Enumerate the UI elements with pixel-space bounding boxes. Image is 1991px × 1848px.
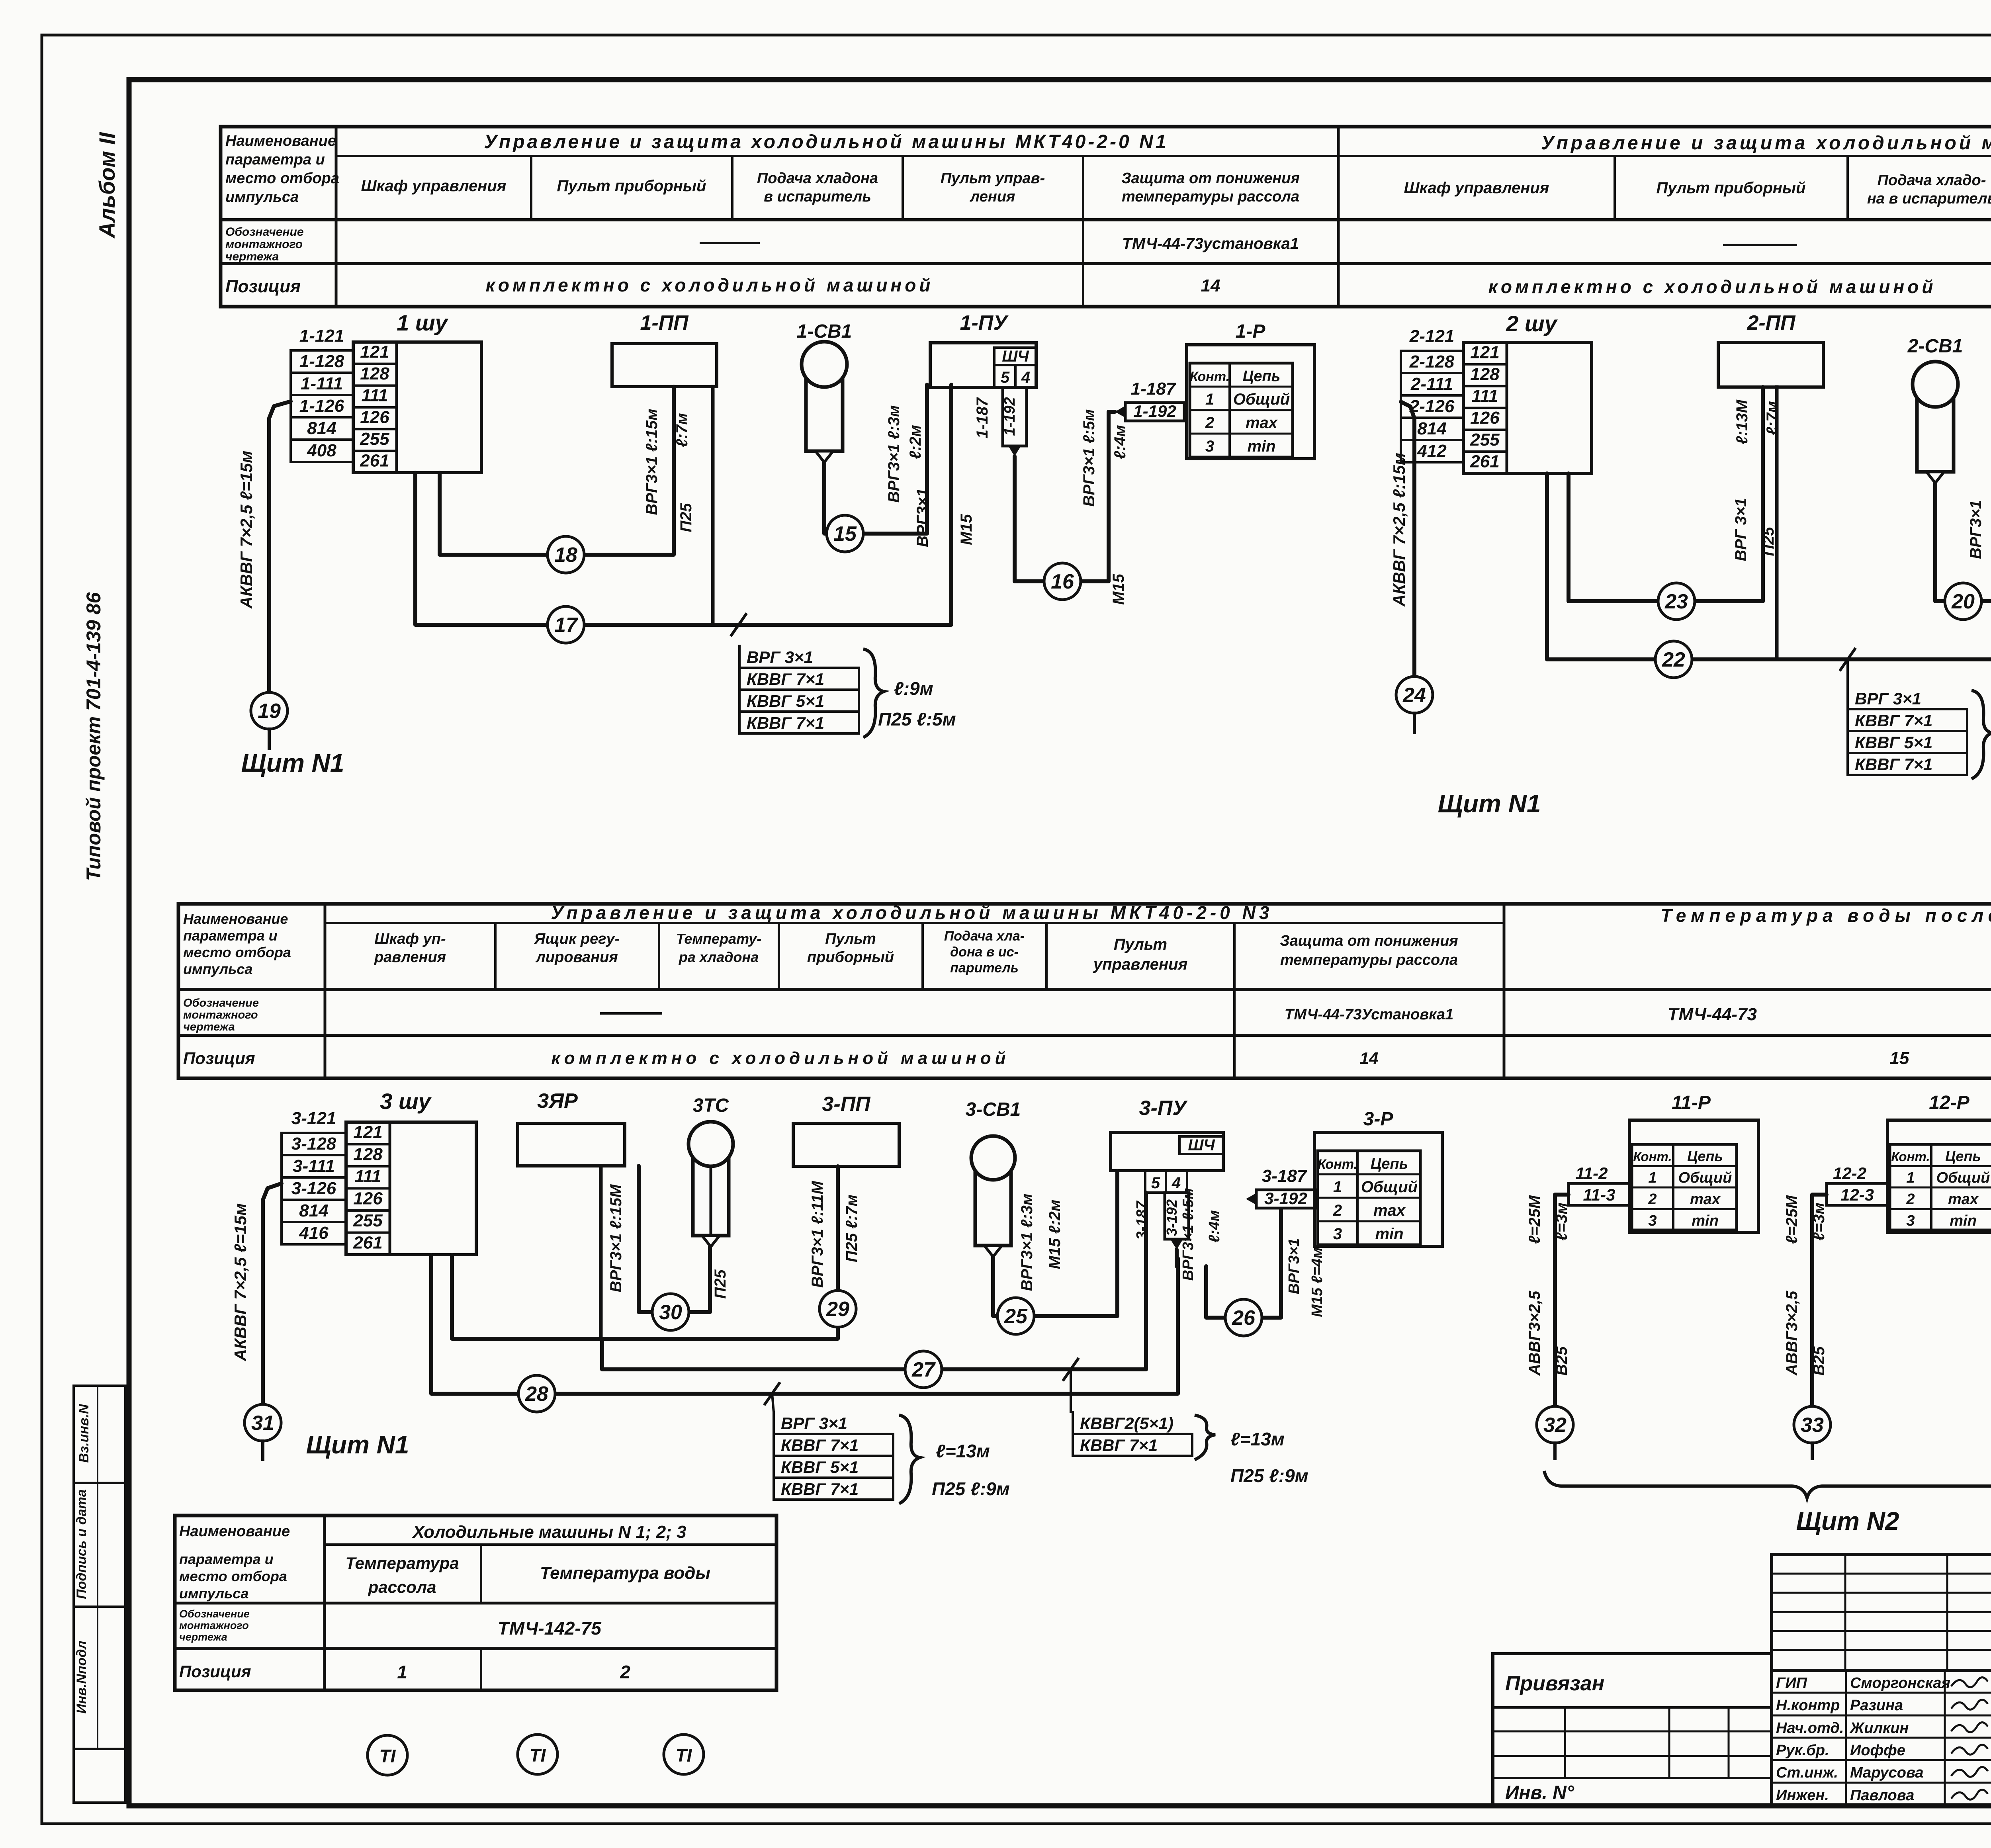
svg-text:Наименование: Наименование — [183, 911, 288, 927]
wire to panel circle19 — [269, 401, 291, 692]
svg-text:416: 416 — [299, 1223, 329, 1243]
svg-text:412: 412 — [1417, 441, 1447, 461]
svg-text:Павлова: Павлова — [1850, 1787, 1914, 1804]
svg-text:Температура воды: Температура воды — [540, 1563, 710, 1583]
svg-text:max: max — [1948, 1191, 1979, 1208]
svg-text:Марусова: Марусова — [1850, 1764, 1924, 1781]
wire number circle 31 — [244, 1404, 281, 1441]
svg-text:ВРГ3×1 ℓ:5м: ВРГ3×1 ℓ:5м — [1180, 1188, 1197, 1281]
svg-text:17: 17 — [554, 614, 578, 637]
svg-text:Нач.отд.: Нач.отд. — [1776, 1720, 1844, 1737]
svg-text:24: 24 — [1402, 684, 1426, 707]
wire 17 t-branch to 1-PP — [711, 387, 715, 625]
svg-text:2-126: 2-126 — [1409, 397, 1455, 416]
svg-text:min: min — [1950, 1212, 1977, 1229]
svg-text:ВРГ3×1 ℓ:3м: ВРГ3×1 ℓ:3м — [885, 405, 903, 503]
svg-text:Типовой проект 701-4-139 86: Типовой проект 701-4-139 86 — [82, 592, 105, 881]
wire number circle 32 — [1537, 1406, 1573, 1443]
svg-text:Позиция: Позиция — [179, 1662, 251, 1681]
svg-text:М15: М15 — [1110, 573, 1127, 605]
svg-text:Ст.инж.: Ст.инж. — [1776, 1764, 1838, 1781]
svg-text:Подача хладо-: Подача хладо- — [1878, 172, 1986, 189]
svg-text:П25 ℓ:9м: П25 ℓ:9м — [1230, 1465, 1308, 1486]
svg-text:1-СВ1: 1-СВ1 — [797, 321, 852, 342]
svg-text:Пульт: Пульт — [1114, 936, 1167, 953]
svg-text:26: 26 — [1232, 1306, 1256, 1330]
svg-text:4: 4 — [1172, 1174, 1181, 1192]
block 2ШУ — [1463, 342, 1592, 473]
svg-text:255: 255 — [360, 429, 389, 449]
svg-text:261: 261 — [360, 451, 389, 471]
svg-text:ВРГ3×1 ℓ:11М: ВРГ3×1 ℓ:11М — [809, 1180, 826, 1288]
svg-text:1-192: 1-192 — [1001, 397, 1018, 436]
title block revision grid — [1772, 1555, 1991, 1670]
svg-text:2: 2 — [1648, 1191, 1657, 1208]
svg-text:комплектно с холодильной ма: комплектно с холодильной машиной — [486, 275, 934, 295]
svg-text:Цепь: Цепь — [1371, 1156, 1408, 1172]
svg-text:место отбора: место отбора — [225, 170, 339, 187]
svg-text:ВРГ3×1 ℓ:15м: ВРГ3×1 ℓ:15м — [643, 409, 661, 515]
svg-text:КВВГ 7×1: КВВГ 7×1 — [1080, 1436, 1158, 1455]
svg-text:КВВГ 5×1: КВВГ 5×1 — [747, 692, 824, 710]
wire 20 path — [1935, 400, 1991, 601]
svg-text:2-ПП: 2-ПП — [1747, 311, 1796, 334]
svg-text:Общий: Общий — [1361, 1178, 1418, 1196]
title block roles grid — [1772, 1670, 1991, 1805]
svg-text:Н.контр: Н.контр — [1776, 1697, 1840, 1714]
svg-text:1-ПП: 1-ПП — [640, 311, 689, 334]
svg-text:П25 ℓ:9м: П25 ℓ:9м — [932, 1478, 1010, 1499]
svg-text:814: 814 — [1417, 419, 1446, 438]
svg-text:комплектно с холодильной ма: комплектно с холодильной машиной — [551, 1048, 1009, 1068]
svg-text:Сморгонская: Сморгонская — [1850, 1675, 1950, 1692]
middle table designation row — [601, 1012, 661, 1015]
wire 16 path — [1015, 412, 1115, 581]
svg-text:261: 261 — [1470, 452, 1499, 471]
wire number circle 29 — [819, 1291, 856, 1327]
svg-text:min: min — [1375, 1225, 1403, 1243]
svg-text:ℓ:7м: ℓ:7м — [673, 413, 691, 447]
svg-text:Обозначение: Обозначение — [179, 1608, 250, 1620]
svg-text:31: 31 — [251, 1412, 274, 1435]
svg-text:Шкаф управления: Шкаф управления — [1404, 179, 1549, 197]
svg-text:Защита от понижения: Защита от понижения — [1121, 170, 1300, 187]
svg-text:3-187: 3-187 — [1134, 1201, 1150, 1240]
svg-text:Температура воды после гра: Температура воды после градирни — [1660, 905, 1991, 926]
svg-text:12-2: 12-2 — [1833, 1164, 1866, 1183]
svg-text:ГИП: ГИП — [1776, 1675, 1807, 1692]
svg-text:max: max — [1246, 414, 1278, 432]
svg-text:Разина: Разина — [1850, 1697, 1903, 1714]
svg-text:max: max — [1373, 1202, 1406, 1219]
wire number circle 19 — [251, 692, 288, 729]
svg-text:лирования: лирования — [535, 949, 618, 966]
wire 30 path — [639, 1166, 710, 1312]
svg-text:1-192: 1-192 — [1133, 402, 1176, 420]
svg-text:1-111: 1-111 — [301, 374, 343, 393]
svg-text:ВРГ 3×1: ВРГ 3×1 — [1855, 689, 1921, 708]
svg-text:чертежа: чертежа — [225, 250, 279, 263]
svg-text:Общий: Общий — [1936, 1169, 1990, 1186]
wire number circle 33 — [1794, 1406, 1831, 1443]
svg-text:33: 33 — [1801, 1414, 1824, 1437]
wire number circle 23 — [1658, 583, 1695, 620]
svg-text:1: 1 — [1648, 1169, 1657, 1186]
svg-text:ℓ=25М: ℓ=25М — [1783, 1195, 1801, 1244]
svg-text:монтажного: монтажного — [179, 1619, 249, 1631]
cable specification table — [1846, 687, 1849, 775]
svg-text:Шкаф уп-: Шкаф уп- — [374, 931, 446, 947]
svg-text:14: 14 — [1201, 276, 1220, 295]
svg-text:3-192: 3-192 — [1164, 1199, 1180, 1236]
svg-text:П25: П25 — [1760, 527, 1777, 556]
svg-text:128: 128 — [360, 364, 389, 383]
svg-text:АКВВГ 7×2,5 ℓ:15м: АКВВГ 7×2,5 ℓ:15м — [1390, 453, 1408, 607]
svg-text:чертежа: чертежа — [183, 1021, 235, 1033]
svg-text:рассола: рассола — [368, 1578, 436, 1596]
svg-text:Щит N1: Щит N1 — [1438, 789, 1541, 818]
svg-text:ВРГ3×1 ℓ:3м: ВРГ3×1 ℓ:3м — [1018, 1194, 1036, 1291]
svg-text:Управление и защита холодильно: Управление и защита холодильной машины М… — [1541, 133, 1991, 154]
svg-text:3: 3 — [1333, 1225, 1342, 1243]
branch tick — [765, 1383, 779, 1404]
wire number circle 20 — [1945, 583, 1981, 620]
TI instrument circle 3 — [664, 1735, 704, 1774]
svg-text:Щит N1: Щит N1 — [306, 1430, 409, 1459]
svg-text:паритель: паритель — [950, 960, 1019, 976]
block 3-PP — [793, 1123, 899, 1166]
svg-text:3-187: 3-187 — [1262, 1166, 1308, 1186]
svg-text:12-Р: 12-Р — [1929, 1092, 1969, 1113]
svg-text:29: 29 — [826, 1298, 849, 1321]
wire number circle 17 — [548, 606, 584, 643]
svg-text:3: 3 — [1906, 1212, 1915, 1229]
svg-text:1 шу: 1 шу — [397, 310, 448, 335]
svg-text:121: 121 — [360, 342, 389, 362]
title block left part — [1493, 1654, 1772, 1805]
svg-text:1: 1 — [1906, 1169, 1915, 1186]
svg-text:3-128: 3-128 — [291, 1134, 336, 1154]
svg-text:1: 1 — [1205, 391, 1214, 408]
wire number circle 30 — [652, 1294, 689, 1330]
svg-text:ℓ=13м: ℓ=13м — [1230, 1429, 1285, 1449]
svg-text:ℓ:4м: ℓ:4м — [1111, 425, 1129, 459]
wire pp2 second drop — [1775, 387, 1779, 659]
svg-text:2: 2 — [620, 1662, 630, 1682]
svg-text:ВРГ3×1: ВРГ3×1 — [1286, 1238, 1303, 1295]
svg-text:Конт.: Конт. — [1633, 1149, 1672, 1164]
svg-text:Управление и защита холодильно: Управление и защита холодильной машины М… — [551, 902, 1273, 923]
block 1-PU — [930, 343, 1036, 387]
svg-text:Обозначение: Обозначение — [183, 997, 259, 1009]
svg-text:126: 126 — [360, 407, 389, 427]
svg-text:27: 27 — [911, 1358, 936, 1381]
svg-text:5: 5 — [1001, 369, 1010, 386]
svg-text:255: 255 — [1470, 430, 1500, 450]
svg-text:Общий: Общий — [1678, 1169, 1732, 1186]
svg-text:КВВГ 5×1: КВВГ 5×1 — [781, 1458, 859, 1476]
svg-text:ра хладона: ра хладона — [679, 949, 759, 965]
svg-text:3: 3 — [1205, 438, 1214, 455]
svg-text:Наименование: Наименование — [225, 133, 336, 149]
svg-text:22: 22 — [1662, 648, 1685, 671]
svg-text:ТМЧ-44-73: ТМЧ-44-73 — [1668, 1005, 1757, 1024]
svg-text:П25 ℓ:5м: П25 ℓ:5м — [878, 709, 956, 729]
wire 18 path — [440, 387, 674, 555]
svg-text:814: 814 — [299, 1201, 328, 1220]
svg-text:3-СВ1: 3-СВ1 — [966, 1099, 1021, 1120]
svg-text:3-111: 3-111 — [293, 1156, 335, 1176]
svg-text:3-121: 3-121 — [291, 1109, 336, 1128]
svg-text:ℓ=3м: ℓ=3м — [1810, 1203, 1828, 1241]
svg-text:2-121: 2-121 — [1409, 327, 1455, 346]
top table machine2 designation row — [1724, 244, 1796, 246]
svg-text:параметра и: параметра и — [183, 927, 278, 944]
block 3ШУ — [346, 1122, 476, 1255]
svg-text:3-192: 3-192 — [1264, 1189, 1307, 1208]
wire number circle 27 — [905, 1351, 942, 1388]
svg-text:температуры рассола: температуры рассола — [1280, 952, 1458, 968]
svg-text:Подача хладона: Подача хладона — [757, 170, 878, 187]
svg-text:ВРГ 3×1: ВРГ 3×1 — [1732, 498, 1750, 561]
wire number circle 28 — [518, 1375, 555, 1412]
svg-text:Общий: Общий — [1233, 391, 1290, 408]
svg-text:814: 814 — [307, 418, 336, 438]
svg-text:4: 4 — [1021, 369, 1030, 386]
svg-text:28: 28 — [525, 1383, 548, 1406]
wire number circle 18 — [548, 536, 584, 573]
svg-text:ℓ=25М: ℓ=25М — [1526, 1195, 1543, 1244]
svg-text:2: 2 — [1333, 1202, 1342, 1219]
wire 26 path — [1175, 1250, 1179, 1266]
svg-text:КВВГ 7×1: КВВГ 7×1 — [1855, 711, 1932, 730]
svg-text:126: 126 — [353, 1189, 383, 1208]
svg-text:управления: управления — [1093, 956, 1187, 973]
svg-text:ℓ:2м: ℓ:2м — [907, 425, 924, 459]
svg-text:25: 25 — [1004, 1305, 1028, 1328]
svg-text:Наименование: Наименование — [179, 1523, 290, 1540]
svg-text:111: 111 — [355, 1167, 381, 1186]
svg-text:15: 15 — [833, 522, 857, 546]
svg-text:АКВВГ 7×2,5 ℓ=15м: АКВВГ 7×2,5 ℓ=15м — [231, 1203, 250, 1361]
svg-text:19: 19 — [258, 700, 281, 723]
wire to panel circle31 — [263, 1183, 282, 1404]
svg-text:ВРГ3×1 ℓ:15М: ВРГ3×1 ℓ:15М — [607, 1184, 625, 1293]
wire 25 path — [993, 1171, 1117, 1316]
svg-text:АВВГ3×2,5: АВВГ3×2,5 — [1783, 1291, 1801, 1376]
branch tick — [1064, 1359, 1078, 1380]
svg-text:ления: ления — [970, 188, 1015, 205]
svg-text:Обозначение: Обозначение — [225, 225, 304, 239]
svg-text:1: 1 — [397, 1662, 407, 1682]
svg-text:КВВГ 5×1: КВВГ 5×1 — [1855, 733, 1932, 752]
cable specification table — [773, 1412, 775, 1500]
wire shu-pp horizontal — [452, 1166, 838, 1339]
wire 32 path — [1555, 1195, 1569, 1406]
wire to panel circle24 — [1401, 402, 1414, 677]
svg-text:КВВГ 7×1: КВВГ 7×1 — [781, 1480, 859, 1498]
svg-text:ℓ:13М: ℓ:13М — [1733, 399, 1751, 444]
svg-text:ВРГ 3×1: ВРГ 3×1 — [747, 648, 813, 667]
svg-text:Управление и защита холодильно: Управление и защита холодильной машины М… — [484, 131, 1169, 153]
svg-text:Температу-: Температу- — [676, 931, 761, 947]
block 1-PP — [612, 344, 717, 387]
svg-text:температуры рассола: температуры рассола — [1122, 188, 1299, 205]
wire 27 spec drop — [1070, 1369, 1072, 1412]
svg-text:в испаритель: в испаритель — [764, 188, 871, 205]
block 3YAR — [518, 1123, 625, 1166]
svg-text:ℓ:4м: ℓ:4м — [1206, 1210, 1223, 1243]
svg-text:П25: П25 — [712, 1269, 729, 1299]
svg-text:1-187: 1-187 — [974, 397, 991, 438]
svg-text:3ТС: 3ТС — [693, 1095, 730, 1116]
svg-text:КВВГ 7×1: КВВГ 7×1 — [1855, 755, 1932, 774]
svg-text:Цепь: Цепь — [1243, 368, 1281, 385]
svg-text:Пульт приборный: Пульт приборный — [1656, 179, 1805, 197]
svg-text:ТМЧ-44-73установка1: ТМЧ-44-73установка1 — [1122, 235, 1299, 252]
svg-text:255: 255 — [353, 1211, 383, 1230]
top table grid — [221, 127, 1991, 307]
margin stamp column — [74, 1386, 125, 1483]
svg-text:111: 111 — [1472, 386, 1498, 406]
svg-text:Щит N2: Щит N2 — [1796, 1507, 1899, 1535]
svg-text:15: 15 — [1890, 1048, 1909, 1068]
svg-text:Конт.: Конт. — [1190, 369, 1230, 384]
svg-text:Пульт: Пульт — [825, 931, 876, 947]
TI instrument circle 2 — [518, 1735, 557, 1774]
svg-text:чертежа: чертежа — [179, 1631, 227, 1643]
svg-text:12-3: 12-3 — [1840, 1185, 1874, 1204]
svg-text:Альбом II: Альбом II — [94, 132, 119, 239]
svg-text:приборный: приборный — [807, 949, 894, 966]
svg-text:Цепь: Цепь — [1945, 1148, 1981, 1164]
svg-text:1-126: 1-126 — [299, 396, 344, 416]
svg-text:11-Р: 11-Р — [1672, 1092, 1711, 1113]
svg-text:min: min — [1692, 1212, 1719, 1229]
cable specification table — [738, 646, 741, 733]
svg-text:параметра и: параметра и — [225, 151, 325, 168]
svg-text:Щит N1: Щит N1 — [241, 749, 344, 777]
svg-text:Конт.: Конт. — [1318, 1157, 1357, 1172]
wire 3yar drop — [599, 1166, 603, 1339]
svg-text:место отбора: место отбора — [179, 1568, 287, 1584]
branch tick — [731, 614, 746, 635]
svg-text:ВРГ 3×1: ВРГ 3×1 — [781, 1414, 847, 1433]
svg-text:АВВГ3×2,5: АВВГ3×2,5 — [1526, 1291, 1543, 1376]
svg-text:М15 ℓ=4м: М15 ℓ=4м — [1309, 1247, 1326, 1317]
svg-text:Инв. N°: Инв. N° — [1505, 1782, 1574, 1803]
svg-text:место отбора: место отбора — [183, 944, 291, 960]
svg-text:Подача хла-: Подача хла- — [944, 929, 1025, 944]
wire 27 path — [602, 1193, 1146, 1369]
svg-text:3-ПУ: 3-ПУ — [1139, 1097, 1188, 1120]
svg-text:Ящик регу-: Ящик регу- — [534, 931, 620, 947]
svg-text:max: max — [1690, 1191, 1721, 1208]
svg-text:Цепь: Цепь — [1687, 1148, 1723, 1164]
svg-text:М15 ℓ:2м: М15 ℓ:2м — [1046, 1200, 1064, 1269]
svg-text:1-ПУ: 1-ПУ — [960, 311, 1009, 334]
wire number circle 25 — [997, 1298, 1034, 1334]
svg-text:М15: М15 — [958, 514, 975, 545]
block 3-PU — [1111, 1132, 1223, 1171]
svg-text:Инжен.: Инжен. — [1776, 1787, 1829, 1804]
svg-text:2-111: 2-111 — [1410, 374, 1453, 394]
TI instrument circle 1 — [368, 1735, 407, 1775]
svg-text:ТІ: ТІ — [530, 1745, 546, 1766]
svg-text:ℓ=13м: ℓ=13м — [936, 1441, 990, 1461]
top table machine1 designation row — [701, 242, 759, 244]
svg-text:2: 2 — [1906, 1191, 1915, 1208]
svg-text:монтажного: монтажного — [225, 238, 303, 251]
svg-text:3-126: 3-126 — [291, 1179, 336, 1198]
svg-text:дона в ис-: дона в ис- — [950, 945, 1019, 960]
svg-text:импульса: импульса — [179, 1585, 248, 1602]
cable specification table — [1072, 1412, 1074, 1456]
svg-text:ТІ: ТІ — [379, 1746, 396, 1766]
svg-text:КВВГ2(5×1): КВВГ2(5×1) — [1080, 1414, 1173, 1433]
svg-text:Шкаф управления: Шкаф управления — [361, 177, 507, 195]
svg-text:КВВГ 7×1: КВВГ 7×1 — [747, 670, 824, 688]
svg-text:408: 408 — [307, 441, 336, 460]
svg-text:2: 2 — [1205, 414, 1214, 432]
svg-text:32: 32 — [1543, 1414, 1567, 1437]
svg-text:ТМЧ-44-73Установка1: ТМЧ-44-73Установка1 — [1285, 1006, 1454, 1023]
svg-text:П25: П25 — [677, 503, 695, 532]
svg-text:3-Р: 3-Р — [1363, 1109, 1394, 1130]
svg-text:ℓ=3м: ℓ=3м — [1553, 1203, 1571, 1241]
svg-text:ТІ: ТІ — [676, 1745, 692, 1766]
svg-text:импульса: импульса — [183, 961, 252, 977]
wire 28 spec drop — [772, 1394, 774, 1412]
wire number circle 15 — [827, 515, 863, 552]
brace shield N2 — [1544, 1471, 1991, 1498]
svg-text:ТМЧ-142-75: ТМЧ-142-75 — [498, 1618, 602, 1639]
svg-text:1-128: 1-128 — [299, 352, 344, 371]
svg-text:5: 5 — [1151, 1174, 1160, 1192]
block 2-PP — [1718, 342, 1823, 387]
wire 23 path — [1569, 387, 1763, 601]
svg-text:импульса: импульса — [225, 189, 299, 205]
svg-text:Позиция: Позиция — [225, 277, 301, 296]
svg-text:АКВВГ 7×2,5 ℓ=15м: АКВВГ 7×2,5 ℓ=15м — [237, 451, 256, 609]
svg-text:Инв.Nподл: Инв.Nподл — [74, 1641, 89, 1713]
svg-text:2 шу: 2 шу — [1506, 311, 1558, 336]
svg-text:П25 ℓ:7м: П25 ℓ:7м — [843, 1195, 861, 1262]
svg-text:11-2: 11-2 — [1576, 1164, 1608, 1183]
svg-text:Вз.инв.N: Вз.инв.N — [76, 1404, 92, 1463]
svg-text:2-128: 2-128 — [1409, 352, 1455, 372]
wire 22 spec drop — [1846, 659, 1849, 687]
wire 22 path — [1547, 400, 1991, 659]
wire number circle 24 — [1396, 677, 1433, 713]
branch tick — [1840, 649, 1855, 670]
svg-text:18: 18 — [554, 544, 577, 567]
svg-text:3 шу: 3 шу — [380, 1089, 432, 1114]
svg-text:128: 128 — [353, 1144, 383, 1164]
svg-text:Защита от понижения: Защита от понижения — [1280, 933, 1458, 949]
svg-text:2-СВ1: 2-СВ1 — [1907, 336, 1963, 357]
svg-text:Жилкин: Жилкин — [1849, 1720, 1909, 1737]
svg-text:ШЧ: ШЧ — [1002, 348, 1029, 365]
svg-text:Привязан: Привязан — [1505, 1672, 1604, 1695]
svg-text:20: 20 — [1951, 590, 1975, 613]
svg-text:Пульт управ-: Пульт управ- — [941, 170, 1045, 187]
wire 28 path — [431, 1255, 1178, 1394]
svg-text:Иоффе: Иоффе — [1850, 1742, 1905, 1759]
svg-text:ВРГ3×1 ℓ:5м: ВРГ3×1 ℓ:5м — [1080, 409, 1098, 507]
svg-text:КВВГ 7×1: КВВГ 7×1 — [747, 714, 824, 732]
svg-text:111: 111 — [362, 386, 388, 405]
